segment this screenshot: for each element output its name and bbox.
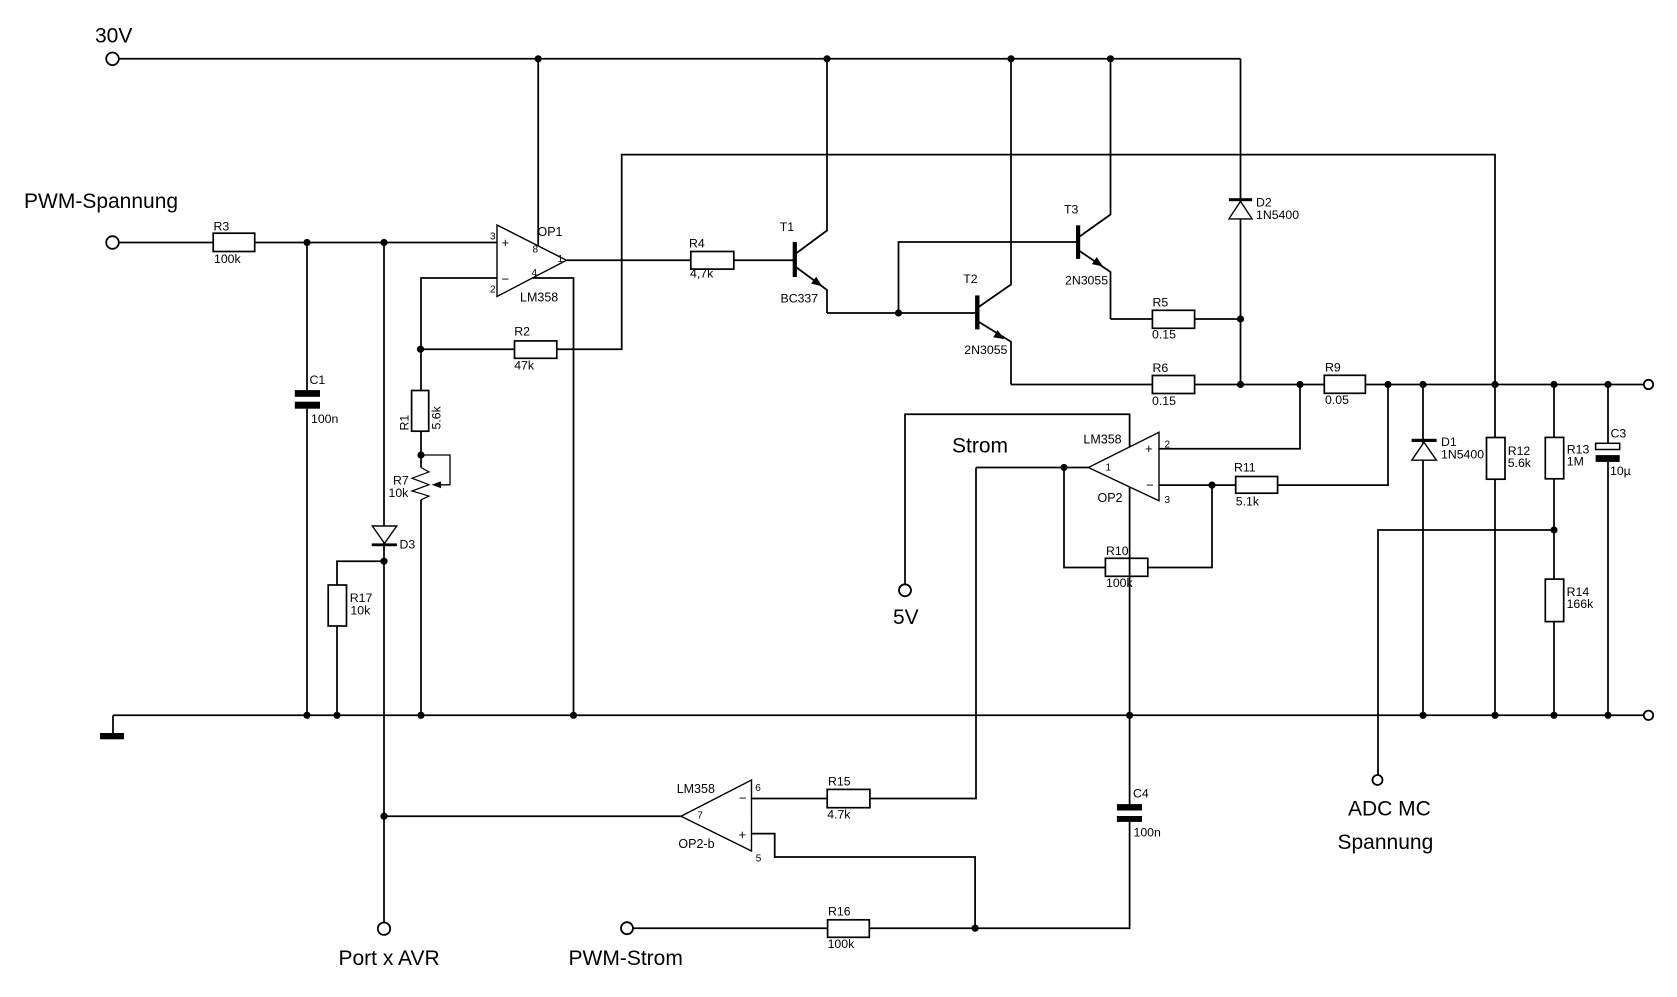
R7 wiper arrowhead <box>432 481 442 488</box>
resistor R4 box <box>691 252 734 270</box>
resistor R9 box <box>1324 375 1365 393</box>
wire R15 left to OP2-b pin6 <box>752 798 828 800</box>
junction dot OP2-b output / Port x AVR <box>380 813 387 820</box>
resistor R1 box <box>412 391 429 432</box>
svg-text:+: + <box>502 235 510 250</box>
wire R1 bottom <box>420 431 422 455</box>
svg-text:R1: R1 <box>398 415 412 431</box>
wire ground rail <box>113 714 1644 716</box>
svg-text:166k: 166k <box>1567 597 1595 611</box>
svg-text:PWM-Strom: PWM-Strom <box>569 947 683 970</box>
terminal PWM-Strom <box>621 922 633 934</box>
svg-text:T3: T3 <box>1064 202 1079 216</box>
svg-text:10k: 10k <box>350 603 371 617</box>
svg-text:1N5400: 1N5400 <box>1256 208 1299 222</box>
svg-text:100k: 100k <box>828 937 856 951</box>
svg-text:6: 6 <box>755 783 761 794</box>
resistor R11 box <box>1236 477 1278 494</box>
resistor R2 box <box>515 341 557 358</box>
terminal ADC MC <box>1373 775 1383 785</box>
wire R17 top link from D3 node <box>337 561 384 585</box>
junction dot OP2 output <box>1060 464 1067 471</box>
svg-text:10k: 10k <box>389 486 410 500</box>
resistor R17 box <box>328 585 346 626</box>
wire C1 branch bottom to ground <box>306 409 308 716</box>
wire R13 to R14 <box>1553 479 1555 579</box>
svg-text:5.6k: 5.6k <box>430 405 444 429</box>
resistor R12 box <box>1487 438 1506 480</box>
svg-text:5: 5 <box>756 853 762 864</box>
svg-text:47k: 47k <box>514 358 535 372</box>
svg-text:R4: R4 <box>689 237 705 251</box>
svg-text:OP1: OP1 <box>538 225 563 239</box>
svg-text:R10: R10 <box>1106 544 1129 558</box>
terminal output + <box>1644 380 1653 389</box>
svg-text:8: 8 <box>533 244 539 255</box>
terminal Port x AVR <box>378 923 390 935</box>
wire C3 bottom to ground <box>1607 462 1609 715</box>
terminal output ground <box>1644 711 1653 720</box>
wire OP2-b pin5 jog to R16 node <box>752 834 976 929</box>
transistor T2 emitter arrowhead <box>993 330 1004 339</box>
wire R17 bottom to ground <box>336 626 338 715</box>
wire PWM-Strom input to R16 <box>633 927 828 929</box>
wire 30V rail <box>119 58 1241 60</box>
resistor R15 box <box>827 789 870 807</box>
junction dot R13/R14/ADC node <box>1550 526 1557 533</box>
svg-text:C4: C4 <box>1133 787 1149 801</box>
wire OP2 +in from output node <box>1159 385 1300 449</box>
op-amp OP1 triangle <box>497 225 567 297</box>
svg-text:C1: C1 <box>310 373 326 387</box>
wire R14 bottom to ground <box>1553 622 1555 716</box>
diode D2 <box>1229 198 1252 201</box>
wire T3 emitter down <box>1080 251 1111 319</box>
wire T3 collector to 30V <box>1080 59 1111 237</box>
wire R12 top <box>1494 385 1496 438</box>
svg-text:D3: D3 <box>400 538 416 552</box>
resistor R10 box (drawn under 5V line) <box>1105 558 1147 576</box>
svg-text:1: 1 <box>1106 463 1112 474</box>
wire R7 wiper <box>421 455 450 485</box>
svg-text:R9: R9 <box>1325 361 1341 375</box>
svg-text:3: 3 <box>1165 495 1171 506</box>
svg-text:100k: 100k <box>214 252 242 266</box>
svg-text:T1: T1 <box>780 220 795 234</box>
resistor R3 box <box>213 233 255 251</box>
wire T2 collector to 30V <box>979 59 1011 307</box>
svg-text:100n: 100n <box>1134 826 1162 840</box>
wire R5 right to D2 node <box>1195 318 1241 320</box>
transistor T3 emitter arrowhead <box>1092 257 1103 266</box>
wire ground rail left drop <box>112 715 114 733</box>
op-amp OP2 triangle <box>1088 432 1159 501</box>
svg-text:5.1k: 5.1k <box>1236 494 1260 508</box>
svg-text:30V: 30V <box>95 25 132 48</box>
svg-text:100n: 100n <box>311 412 339 426</box>
svg-text:R11: R11 <box>1234 461 1256 475</box>
svg-text:Strom: Strom <box>952 435 1008 458</box>
svg-text:4: 4 <box>532 268 538 279</box>
terminal 5V <box>899 584 911 596</box>
svg-text:C3: C3 <box>1611 427 1627 441</box>
svg-text:−: − <box>739 790 747 805</box>
wire T3 base net <box>899 242 1077 313</box>
wire R2 right feedback to output node <box>557 155 1495 385</box>
wire R1 top <box>420 349 422 390</box>
resistor R5 box <box>1152 310 1194 328</box>
svg-text:2N3055: 2N3055 <box>1065 273 1108 287</box>
svg-text:2: 2 <box>490 285 496 296</box>
resistor R16 box <box>828 920 870 938</box>
wire OP1 pin8 V+ from 30V rail <box>537 59 539 248</box>
terminal 30V <box>106 53 119 66</box>
wire T2 emitter to R6 <box>1011 384 1152 386</box>
resistor R13 box <box>1545 437 1563 478</box>
wire OP1 pin4 to ground <box>533 278 574 715</box>
wire R10 left loop <box>1064 468 1105 568</box>
svg-text:0.15: 0.15 <box>1152 394 1176 408</box>
svg-text:4.7k: 4.7k <box>827 808 851 822</box>
svg-text:2N3055: 2N3055 <box>964 343 1007 357</box>
wire OP2 output down to R15 <box>870 468 976 799</box>
svg-text:0.15: 0.15 <box>1152 328 1176 342</box>
wire OP1 -in (pin2) <box>421 278 497 349</box>
svg-text:OP2: OP2 <box>1098 491 1123 505</box>
svg-text:1N5400: 1N5400 <box>1441 447 1484 461</box>
junction dots output node line <box>1237 381 1612 388</box>
wire R13 top <box>1553 385 1555 438</box>
diode D1 <box>1412 439 1437 442</box>
junction dot T1 emitter / T3 base <box>895 309 902 316</box>
junction dots 30V rail <box>535 55 1114 62</box>
svg-text:10µ: 10µ <box>1610 464 1631 478</box>
svg-text:ADC MC: ADC MC <box>1348 798 1431 821</box>
svg-text:2: 2 <box>1165 440 1171 451</box>
svg-text:R3: R3 <box>214 220 230 234</box>
wire R2 left <box>421 348 515 350</box>
svg-text:Port x AVR: Port x AVR <box>339 947 440 970</box>
svg-text:Spannung: Spannung <box>1338 831 1434 854</box>
svg-text:100k: 100k <box>1106 576 1134 590</box>
svg-text:LM358: LM358 <box>1083 432 1121 446</box>
svg-text:LM358: LM358 <box>520 291 558 305</box>
wire PWM-Spannung input to OP1 +in <box>119 242 497 244</box>
svg-text:R2: R2 <box>514 325 530 339</box>
wire 5V supply net (terminal up, right, down through OP2 to ground/C4) <box>905 414 1130 804</box>
wire OP1 output to R4 <box>567 259 691 261</box>
svg-text:1M: 1M <box>1567 454 1584 468</box>
wire R12 bottom to ground <box>1494 479 1496 715</box>
svg-text:T2: T2 <box>963 272 978 286</box>
wire C1 branch top <box>306 243 308 391</box>
potentiometer R7 zigzag <box>412 468 429 500</box>
capacitor C3 plates (polarized) <box>1596 443 1620 449</box>
wire T2 emitter down <box>979 322 1011 385</box>
wire OP2-b output to Port x AVR node <box>384 815 681 817</box>
wire D3 / Port x AVR branch <box>383 243 385 923</box>
svg-text:0.05: 0.05 <box>1325 393 1349 407</box>
svg-text:BC337: BC337 <box>781 292 819 306</box>
wire output rail right of R9 <box>1365 384 1643 386</box>
transistor T1 base bar <box>793 242 797 277</box>
transistor T1 emitter arrowhead <box>811 277 822 286</box>
wire R7 bottom to ground <box>420 500 422 716</box>
wire T1 emitter to T2 base <box>827 312 975 314</box>
svg-text:4,7k: 4,7k <box>690 267 714 281</box>
wire OP2 -in to R11 <box>1159 484 1236 486</box>
wire R7 top <box>420 455 422 468</box>
junction dot pin5 jog / R16 <box>972 925 979 932</box>
resistor R6 box <box>1152 376 1194 394</box>
diode D3 <box>372 526 396 543</box>
ground symbol <box>100 733 124 739</box>
terminal PWM-Spannung <box>106 236 119 249</box>
wire D2 branch 30V to output rail <box>1240 59 1242 385</box>
junction dots ground rail <box>303 712 1611 719</box>
wire ADC MC tap from R13/R14 node <box>1378 530 1554 775</box>
wire T1 collector to 30V <box>797 59 827 253</box>
svg-text:3: 3 <box>490 232 496 243</box>
svg-text:−: − <box>502 271 510 286</box>
svg-text:+: + <box>1145 441 1153 456</box>
transistor T2 base bar <box>975 295 979 329</box>
svg-text:−: − <box>1146 477 1154 492</box>
wire C3 top <box>1607 385 1609 444</box>
svg-text:7: 7 <box>697 811 703 822</box>
junction dot OP2 -in / R10 <box>1208 482 1215 489</box>
wire OP2 output <box>976 467 1088 469</box>
wire R11 right to output node <box>1278 385 1388 486</box>
junction dots PWM input line <box>303 239 387 246</box>
wire R4 to T1 base <box>734 259 793 261</box>
wire R16 right to C4 <box>869 822 1129 928</box>
wire T1 emitter down <box>797 268 827 314</box>
svg-text:PWM-Spannung: PWM-Spannung <box>24 190 178 213</box>
wire R10 right loop <box>1148 485 1212 567</box>
wire D1 branch output rail to ground <box>1422 385 1424 716</box>
svg-text:+: + <box>739 827 747 842</box>
junction dot R5/D2 node <box>1237 315 1244 322</box>
svg-text:LM358: LM358 <box>677 782 715 796</box>
svg-text:1: 1 <box>558 254 564 265</box>
svg-text:R5: R5 <box>1153 296 1169 310</box>
junction dot D3/R17 node <box>380 558 387 565</box>
resistor R14 box <box>1545 579 1563 622</box>
svg-text:5.6k: 5.6k <box>1508 456 1532 470</box>
op-amp OP2-b triangle <box>681 780 752 851</box>
junction dot R2/R1/OP1 node <box>417 346 424 353</box>
transistor T3 base bar <box>1076 225 1080 259</box>
svg-text:OP2-b: OP2-b <box>678 837 714 851</box>
svg-text:5V: 5V <box>893 606 919 629</box>
capacitor C1 plates <box>295 390 320 397</box>
svg-text:R15: R15 <box>828 775 851 789</box>
svg-text:R16: R16 <box>828 905 851 919</box>
wire R6 right to R9 <box>1195 384 1324 386</box>
junction dot R1/R7 node <box>417 451 424 458</box>
wire T3 emitter to R5 <box>1111 318 1153 320</box>
svg-text:R6: R6 <box>1153 361 1169 375</box>
capacitor C4 plates <box>1117 804 1142 810</box>
